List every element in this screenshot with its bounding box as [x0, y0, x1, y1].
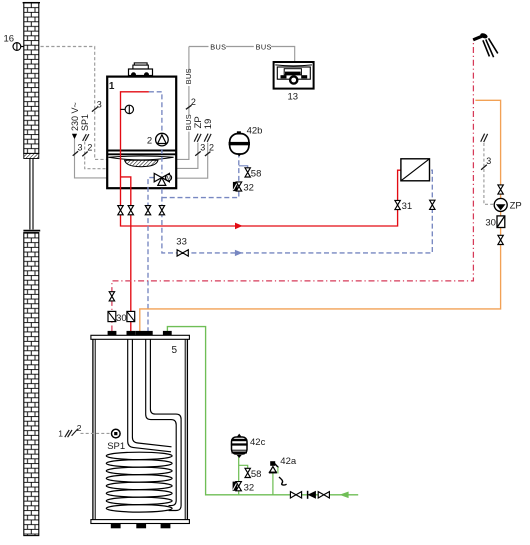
svg-text:13: 13 [288, 91, 299, 102]
svg-text:SP1: SP1 [107, 441, 125, 452]
svg-text:2: 2 [191, 97, 196, 107]
svg-text:3: 3 [78, 143, 83, 153]
SP1 cable wire (dashed) [85, 142, 107, 169]
wire count slash 2 (BUS) [186, 97, 196, 110]
flue pipe flange [23, 230, 40, 232]
svg-text:16: 16 [4, 34, 15, 45]
svg-text:42c: 42c [250, 437, 266, 448]
ZP cable label [193, 116, 204, 142]
shut-off valve (cold water line, right) [318, 492, 329, 498]
svg-text:BUS: BUS [184, 68, 193, 84]
flue-gas sensor 16 cable (dashed) [41, 47, 107, 160]
boiler flue stub [129, 63, 153, 77]
safety valve 42a [269, 461, 279, 473]
SP1 cable label [80, 114, 90, 141]
wire count slash 3 (sensor 16 cable) [92, 99, 102, 111]
wire count slash 2 (SP1) [82, 142, 92, 156]
19 cable label [203, 119, 214, 142]
svg-text:M: M [166, 176, 171, 182]
DHW circulation pipe (orange) [140, 100, 501, 331]
svg-text:2: 2 [147, 135, 152, 146]
svg-text:3: 3 [486, 156, 491, 166]
svg-text:SP1: SP1 [80, 114, 90, 131]
svg-text:3: 3 [97, 99, 102, 109]
valve (DHW at tank) [109, 292, 114, 301]
chimney wall upper section [23, 3, 40, 154]
svg-text:58: 58 [251, 469, 262, 480]
svg-text:2: 2 [209, 142, 214, 152]
blue return pipe from tank coil [148, 178, 154, 332]
DHW pipe (red dash-dot) tank to shower [112, 40, 474, 332]
chimney wall lower section [24, 233, 39, 536]
svg-text:BUS: BUS [210, 43, 226, 52]
svg-text:30: 30 [485, 218, 496, 229]
blue branch to expansion vessel 42b [162, 156, 248, 198]
svg-text:31: 31 [402, 201, 413, 212]
svg-text:32: 32 [243, 183, 254, 194]
shut-off valve (cold water line, left) [290, 492, 301, 498]
svg-text:3: 3 [200, 143, 205, 153]
shower head [473, 32, 498, 57]
blue return pipe from heat exchanger [162, 170, 432, 256]
boiler separator lines [107, 151, 176, 155]
tank bottom flange [91, 520, 189, 524]
tank internal pipe (coil feed) [128, 339, 172, 452]
svg-text:33: 33 [176, 237, 187, 248]
pump 2 (boiler) [156, 133, 169, 146]
gravity brake 30 (circulation) [485, 216, 504, 229]
flue-gas sensor 16 [13, 43, 24, 51]
svg-text:BUS: BUS [256, 43, 272, 52]
circulation pump ZP [494, 198, 507, 211]
storage tank 5 outline [93, 336, 187, 523]
230V supply wire [75, 139, 107, 178]
valve (circulation, lower) [498, 235, 503, 244]
19 cable wire [176, 142, 214, 178]
drain squiggle (42a outlet) [279, 477, 287, 485]
heat exchanger [401, 159, 430, 181]
gravity brake 30 (DHW) [108, 311, 116, 321]
expansion vessel 42c [231, 434, 248, 458]
valve (circulation, upper) [498, 185, 503, 194]
service valve (boiler, tank supply) [128, 206, 133, 215]
valve 33 [176, 237, 188, 257]
valve 58 (heating circuit) [245, 168, 261, 180]
wire count marks 1 // 2 (SP1 sensor) [58, 423, 82, 438]
BUS wire horizontal [189, 43, 295, 62]
control unit 13 [274, 62, 314, 89]
svg-text:30: 30 [116, 313, 127, 324]
check valve (cold water line) [308, 491, 316, 499]
valve 31 [395, 200, 412, 212]
boiler 1 outline [107, 77, 176, 189]
valve (exchanger return) [430, 200, 435, 209]
svg-text:230 V~: 230 V~ [70, 102, 80, 131]
tank sensor SP1 [112, 429, 121, 438]
BUS wire vertical to boiler [176, 47, 193, 160]
tank feet [111, 524, 171, 529]
cold water pipe (green) [167, 327, 358, 499]
230V supply label [70, 102, 80, 139]
red supply pipe to tank coil [121, 177, 131, 332]
wire count slash 3 (230V) [73, 143, 83, 156]
svg-text:42a: 42a [280, 456, 297, 467]
cap valve 32 (heating circuit) [233, 182, 254, 194]
ZP pump cable (right, dashed) [481, 134, 495, 205]
svg-text:5: 5 [172, 345, 178, 356]
red heating supply pipe to heat exchanger [121, 92, 402, 229]
ZP cable wire [176, 143, 206, 169]
service valve (boiler, heating return) [159, 206, 164, 215]
svg-text:1: 1 [58, 429, 63, 439]
blue return pipe inside boiler [149, 92, 162, 174]
service valve (boiler, tank return) [145, 206, 150, 215]
svg-text:2: 2 [87, 142, 92, 152]
svg-text:BUS: BUS [184, 114, 193, 130]
svg-text:1: 1 [109, 81, 115, 92]
tank heating coil [106, 452, 172, 512]
svg-text:ZP: ZP [510, 201, 522, 212]
boiler temperature sensor [121, 105, 134, 113]
svg-text:32: 32 [244, 483, 255, 494]
burner tray [108, 156, 173, 167]
gravity brake 30 (tank supply) [127, 311, 135, 321]
svg-text:19: 19 [203, 119, 214, 130]
valve 58 (cold water) [245, 468, 261, 480]
cap valve 32 (cold water) [233, 482, 255, 494]
tank connector stubs [108, 331, 172, 336]
svg-text:58: 58 [251, 168, 262, 179]
3-way valve with motor M [154, 173, 171, 185]
svg-text:2: 2 [77, 423, 82, 433]
flue pipe (double line) [30, 159, 33, 230]
expansion vessel 42b [229, 131, 250, 156]
service valve (boiler, heating supply) [118, 206, 123, 215]
tank top flange [91, 335, 189, 339]
tank internal pipe (coil return) [146, 339, 181, 510]
tank sensor SP1 cable (dashed) [81, 432, 112, 434]
svg-text:42b: 42b [247, 125, 263, 136]
chimney hatched collar [24, 154, 39, 159]
